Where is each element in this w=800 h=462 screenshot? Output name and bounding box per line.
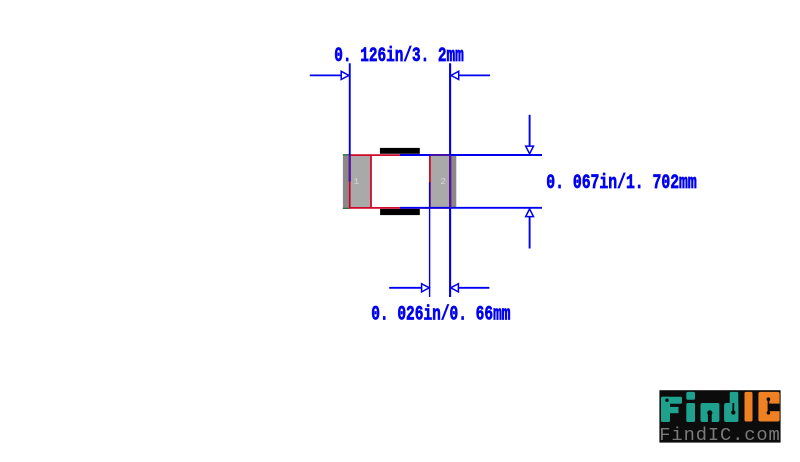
svg-text:0. 026in/0. 66mm: 0. 026in/0. 66mm (371, 303, 510, 326)
dim top: right arrowhead (points left) (451, 71, 459, 79)
pad 2 (right terminal, inner light area) (430, 155, 450, 209)
logo letter F (661, 397, 670, 422)
green courtyard segment top-left (343, 154, 349, 155)
dim bottom: right arrow line (458, 287, 489, 289)
pad 2 (right terminal, outer dark strip) (450, 155, 456, 209)
dim top: right arrow line (459, 74, 490, 76)
green courtyard segment bottom-left (343, 208, 349, 209)
svg-text:2: 2 (440, 176, 446, 187)
logo letter C (758, 392, 779, 422)
dim top: extension line right (x=450.1) (449, 63, 451, 297)
dim right: upper arrow line (529, 115, 531, 147)
FindIC logo background (659, 390, 780, 442)
dim top: extension line left (x=349.75) (349, 63, 351, 181)
svg-text:0. 067in/1. 702mm: 0. 067in/1. 702mm (546, 172, 697, 195)
wire overlap purple: right body edge under top-dim extension (449, 155, 451, 208)
pad 1 (left terminal, outer dark strip) (343, 155, 350, 209)
dim right: lower arrow line (529, 216, 531, 248)
logo letter i (686, 392, 695, 400)
wire overlap purple: left body edge under top-dim extension (349, 155, 351, 181)
dim bottom: left arrow line (389, 287, 422, 289)
svg-text:FindIC.com: FindIC.com (659, 424, 780, 446)
dim right: upper arrowhead (points down) (526, 146, 534, 154)
dim right: top edge line (400, 154, 542, 156)
component body outline (red) (350, 155, 451, 208)
pad 1 (left terminal, inner light area) (350, 155, 371, 209)
black termination bar bottom (380, 209, 420, 215)
dim right: bottom edge line (400, 207, 542, 209)
logo letter d (724, 403, 738, 422)
red terminal inner edge line left (370, 155, 372, 208)
logo letter I (745, 392, 753, 422)
dim bottom: extension line (x=429.6) (429, 182, 431, 297)
dim right: lower arrowhead (points up) (526, 209, 534, 217)
logo letter n (701, 403, 720, 422)
dim bottom: left arrowhead (points right) (422, 284, 430, 292)
black termination bar top (380, 148, 420, 154)
dim bottom: right arrowhead (points left) (451, 284, 459, 292)
dim top: left arrow line (310, 74, 342, 76)
green courtyard segment top-right (451, 154, 457, 155)
dim top: left arrowhead (points right) (341, 71, 349, 79)
red terminal inner edge line right (429, 155, 431, 208)
wire overlap purple: top edge near pad 2 (431, 154, 450, 156)
svg-text:1: 1 (354, 176, 360, 187)
svg-text:0. 126in/3. 2mm: 0. 126in/3. 2mm (334, 45, 464, 68)
